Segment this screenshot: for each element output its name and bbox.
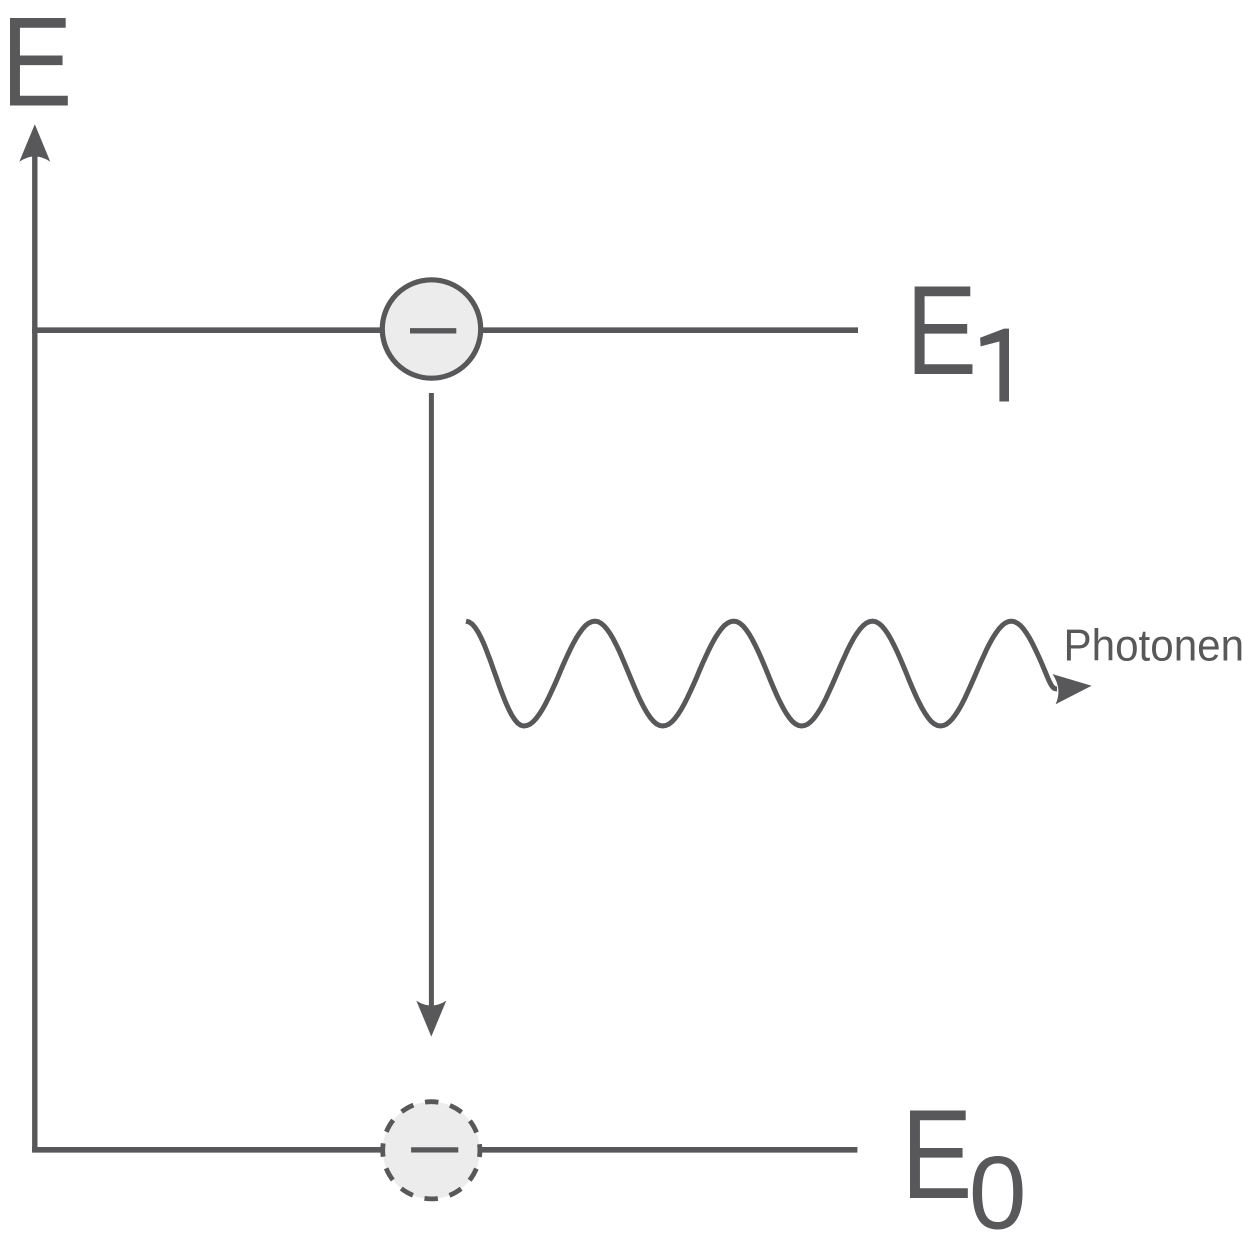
svg-text:Photonen: Photonen (1064, 621, 1242, 670)
svg-text:E: E (901, 1083, 972, 1225)
svg-text:E: E (1, 0, 72, 133)
svg-text:0: 0 (969, 1135, 1027, 1251)
svg-text:E: E (906, 259, 977, 401)
